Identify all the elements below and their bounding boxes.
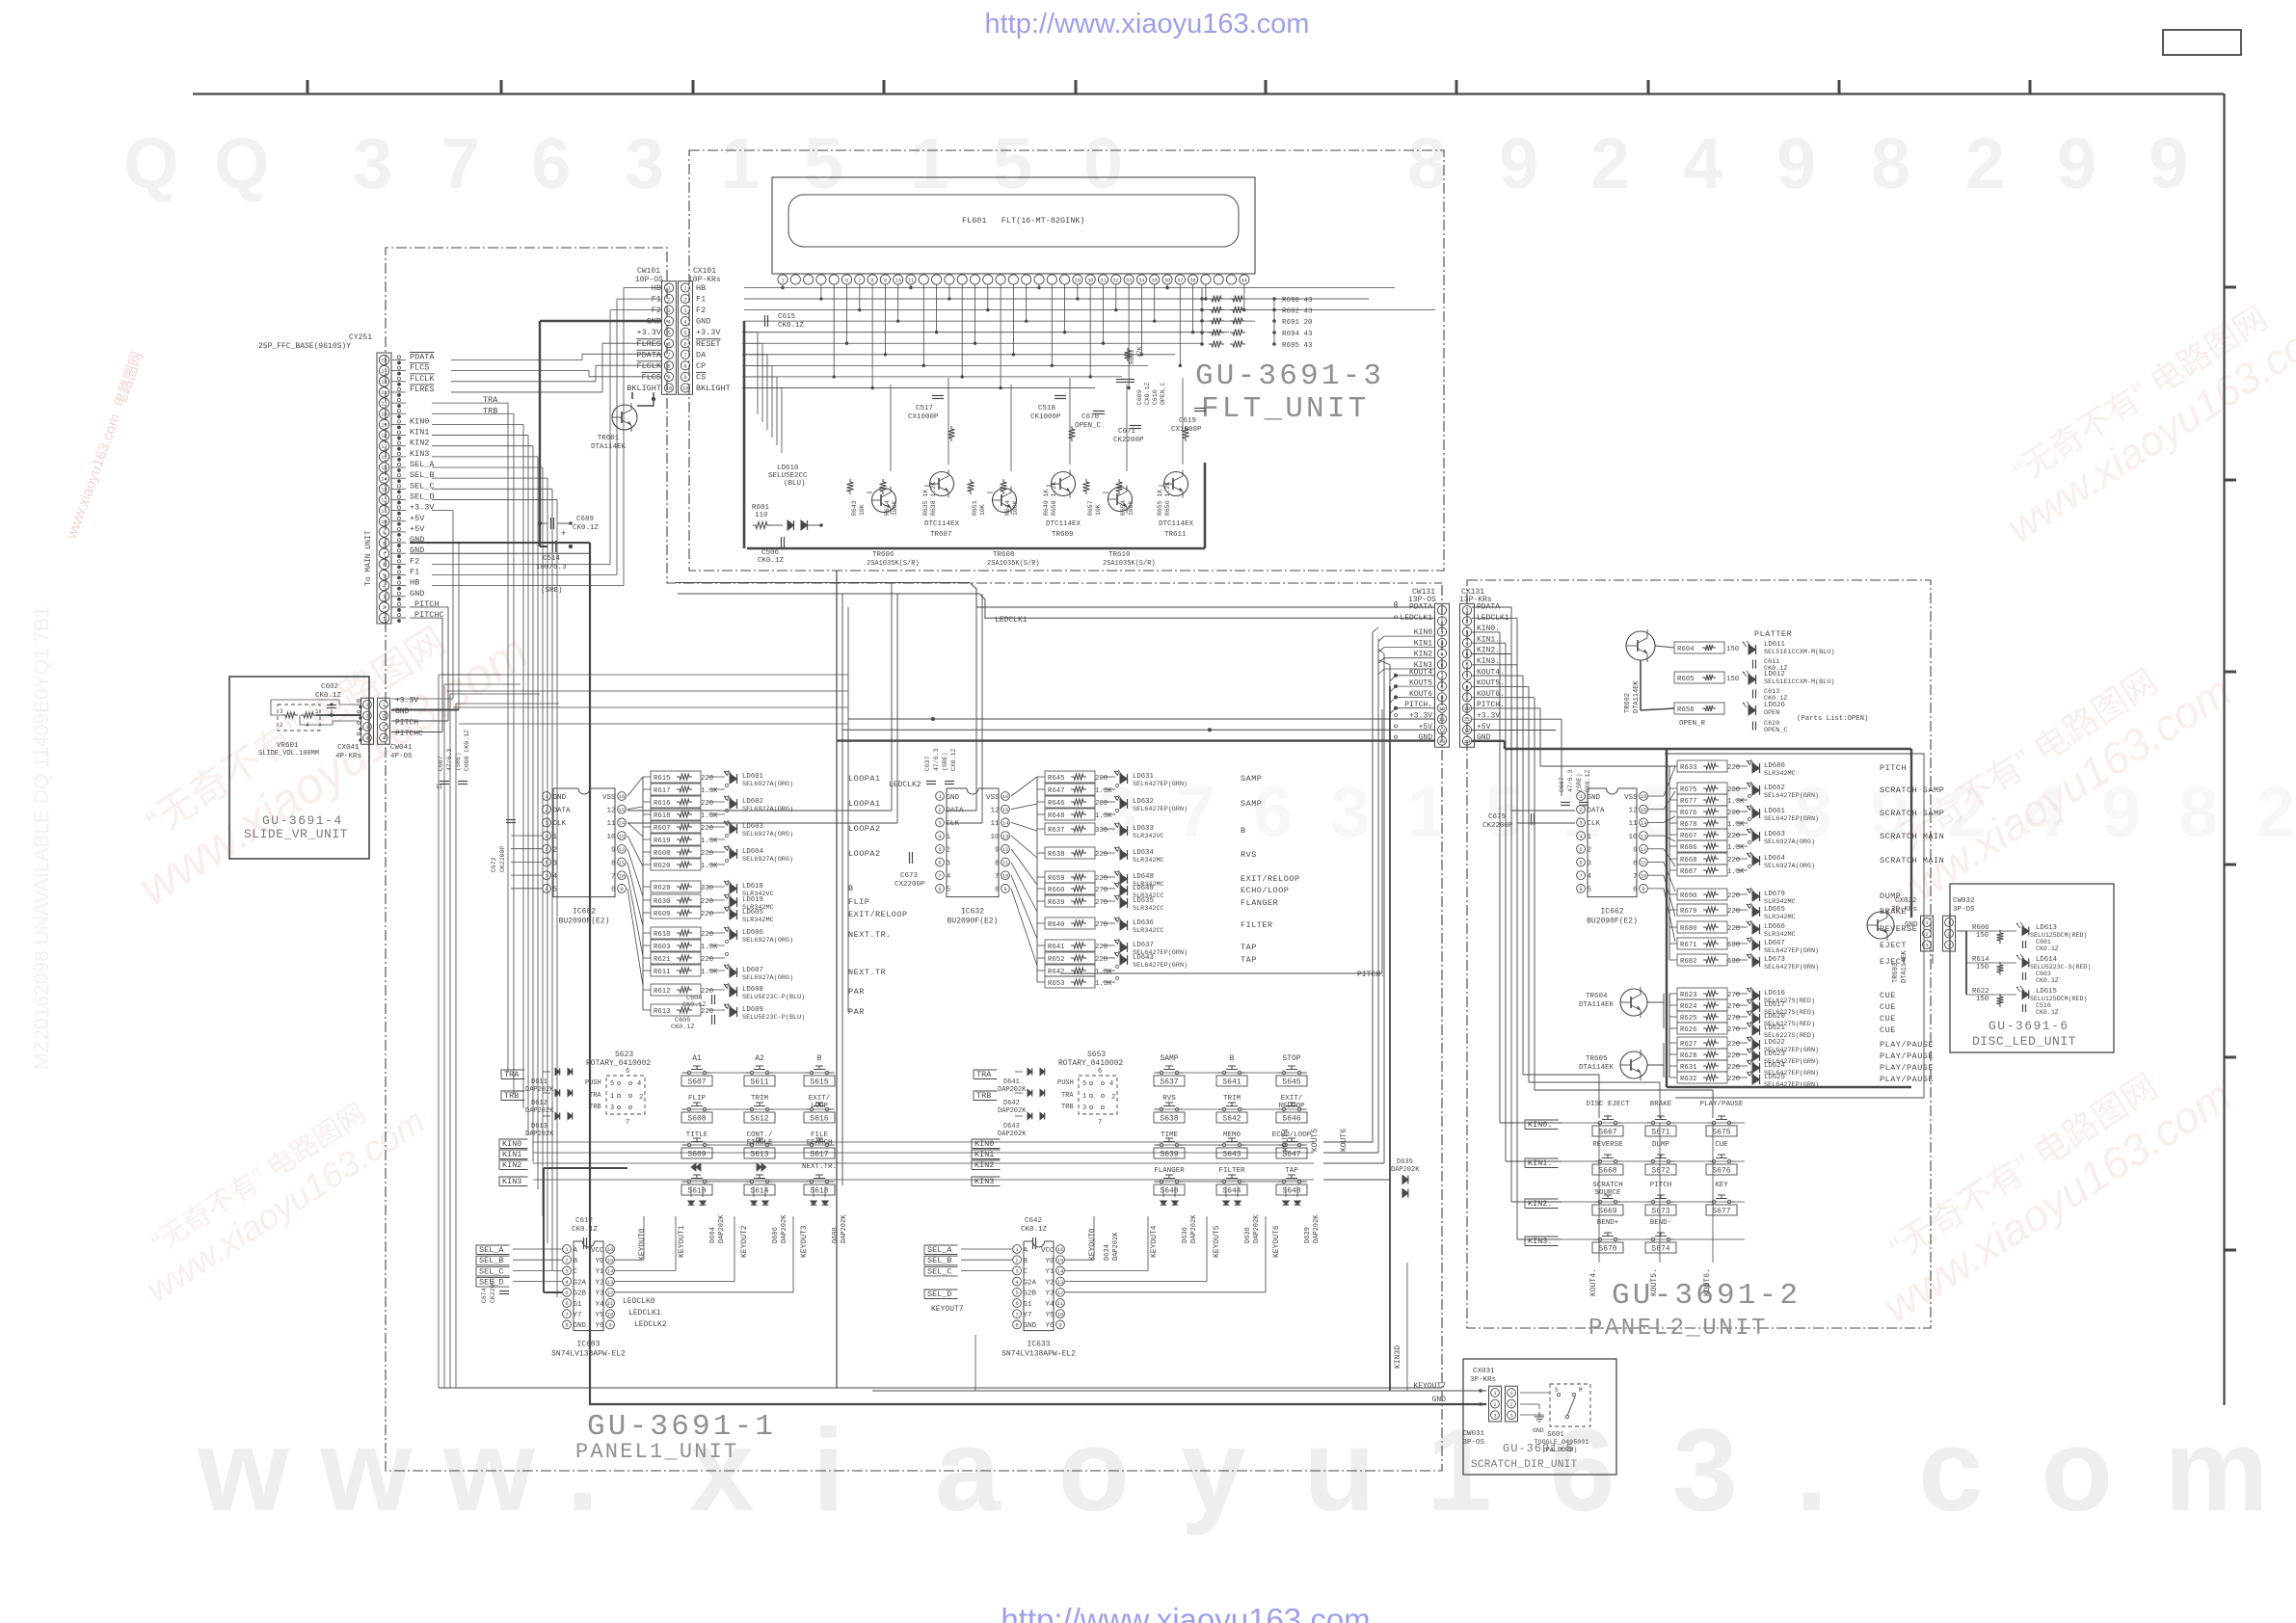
wire bus CY251 F2 F1 HB GND to CW101 pins bbox=[432, 563, 610, 565]
svg-text:TR610: TR610 bbox=[1108, 551, 1131, 559]
small circles at CX041 pins bbox=[358, 700, 360, 703]
svg-text:SLIDE_VOL.100MM: SLIDE_VOL.100MM bbox=[258, 750, 319, 758]
LED LD605 SLR342MC bbox=[730, 910, 737, 919]
svg-text:2: 2 bbox=[280, 722, 283, 729]
svg-text:PLAY/PAUSE: PLAY/PAUSE bbox=[1880, 1040, 1934, 1050]
svg-text:SEL6927A(ORG): SEL6927A(ORG) bbox=[1764, 863, 1815, 870]
svg-text:10: 10 bbox=[1628, 834, 1638, 841]
connector CW101 pin strip bbox=[662, 281, 677, 395]
svg-text:S642: S642 bbox=[1222, 1115, 1241, 1124]
svg-text:TAP: TAP bbox=[1241, 955, 1257, 965]
svg-text:1.3K: 1.3K bbox=[701, 944, 718, 951]
svg-text:CS: CS bbox=[696, 372, 706, 382]
svg-text:LD636: LD636 bbox=[1133, 919, 1154, 927]
LED LD603 SEL6927A(ORG) bbox=[730, 824, 737, 834]
svg-text:EJECT: EJECT bbox=[1880, 941, 1907, 950]
svg-text:GU-3691-6: GU-3691-6 bbox=[1989, 1019, 2069, 1033]
svg-text:D634: D634 bbox=[1104, 1244, 1111, 1261]
svg-text:HB: HB bbox=[410, 578, 419, 588]
resistor R646 200 bbox=[1045, 796, 1095, 808]
svg-text:1.3K: 1.3K bbox=[1095, 812, 1112, 820]
svg-text:SLR342MC: SLR342MC bbox=[742, 917, 774, 924]
svg-text:S640: S640 bbox=[1160, 1187, 1178, 1196]
svg-text:220: 220 bbox=[1727, 764, 1740, 772]
resistor R633 220 bbox=[1677, 760, 1727, 772]
svg-text:EXIT/: EXIT/ bbox=[809, 1095, 831, 1103]
svg-text:LD666: LD666 bbox=[1764, 923, 1785, 931]
svg-text:OPEN_R: OPEN_R bbox=[1679, 720, 1706, 728]
svg-text:KIN3D: KIN3D bbox=[1394, 1345, 1402, 1369]
svg-text:KIN3: KIN3 bbox=[974, 1177, 994, 1186]
switch S612 bbox=[750, 1107, 754, 1111]
svg-text:R610: R610 bbox=[654, 931, 671, 939]
svg-text:3: 3 bbox=[1509, 1412, 1512, 1419]
svg-text:G1: G1 bbox=[1024, 1301, 1033, 1309]
svg-text:1.3K: 1.3K bbox=[701, 787, 718, 795]
svg-text:S639: S639 bbox=[1160, 1151, 1178, 1159]
svg-text:TR609: TR609 bbox=[1052, 531, 1074, 539]
svg-text:2SA1035K(S/R): 2SA1035K(S/R) bbox=[987, 560, 1040, 568]
svg-text:LD624: LD624 bbox=[1764, 1062, 1786, 1070]
transistor TR603 DTA114EK rotated label bbox=[1867, 912, 1894, 939]
resistor R621 220 bbox=[651, 952, 701, 964]
ladder left feed bus bbox=[1669, 766, 1670, 960]
svg-text:CK2200P: CK2200P bbox=[499, 846, 506, 872]
svg-text:LD643: LD643 bbox=[1133, 954, 1154, 962]
svg-text:R621: R621 bbox=[654, 956, 671, 964]
svg-text:D641: D641 bbox=[1003, 1078, 1020, 1086]
svg-text:S653: S653 bbox=[1087, 1051, 1106, 1059]
svg-text:CK0.1Z: CK0.1Z bbox=[778, 322, 805, 330]
svg-text:12: 12 bbox=[1057, 1290, 1064, 1296]
frame right ticks bbox=[2224, 286, 2236, 289]
LED LD664 SEL6927A(ORG) bbox=[1752, 856, 1760, 865]
svg-text:R654: R654 bbox=[1120, 500, 1127, 516]
svg-text:D639: D639 bbox=[1304, 1227, 1312, 1243]
svg-text:1.3K: 1.3K bbox=[1727, 821, 1745, 829]
svg-text:R632: R632 bbox=[1680, 1076, 1697, 1083]
svg-text:PUSH: PUSH bbox=[585, 1079, 601, 1087]
svg-text:270: 270 bbox=[1727, 1003, 1740, 1011]
svg-text:DAP202K: DAP202K bbox=[998, 1107, 1027, 1115]
svg-text:5: 5 bbox=[993, 123, 1032, 203]
svg-text:LD648: LD648 bbox=[1133, 873, 1154, 881]
svg-text:G2B: G2B bbox=[574, 1290, 587, 1298]
PANEL2 LED ladder return bus outline bbox=[1665, 754, 1924, 1098]
svg-text:16: 16 bbox=[607, 1246, 614, 1253]
svg-text:SLR342MC: SLR342MC bbox=[1764, 931, 1796, 939]
LED LD679 SLR342MC bbox=[1752, 891, 1760, 901]
svg-text:TRB: TRB bbox=[589, 1104, 601, 1111]
wire KOUT thick vertical to panel1 bottom bbox=[1389, 686, 1391, 1391]
svg-text:Q: Q bbox=[123, 123, 179, 203]
capacitor C613 CK0.1Z bbox=[1752, 690, 1754, 699]
svg-text:220: 220 bbox=[701, 911, 713, 918]
svg-text:SEL6427EP(GRN): SEL6427EP(GRN) bbox=[1133, 962, 1188, 970]
svg-text:S: S bbox=[1555, 1387, 1559, 1394]
resistor R641 220 bbox=[1045, 940, 1095, 951]
svg-text:R677: R677 bbox=[1680, 798, 1697, 806]
resistor R623 270 bbox=[1677, 988, 1727, 999]
svg-text:SELU5E23C-P(BLU): SELU5E23C-P(BLU) bbox=[742, 1014, 805, 1022]
switch S610 bbox=[687, 1180, 691, 1184]
svg-text:15: 15 bbox=[619, 807, 626, 813]
svg-text:6: 6 bbox=[938, 860, 941, 866]
svg-text:47K: 47K bbox=[1136, 346, 1143, 358]
svg-text:11: 11 bbox=[607, 1300, 614, 1307]
svg-text:12: 12 bbox=[1628, 808, 1637, 815]
svg-text:DAP202K: DAP202K bbox=[1391, 1166, 1420, 1174]
svg-text:Y4: Y4 bbox=[1045, 1301, 1055, 1309]
svg-text:ROTARY_0410002: ROTARY_0410002 bbox=[586, 1059, 651, 1068]
wire +3.3V GND to slide VR connector bbox=[432, 510, 453, 512]
svg-text:S623: S623 bbox=[615, 1051, 633, 1059]
svg-text:9: 9 bbox=[1440, 695, 1443, 702]
svg-text:14: 14 bbox=[619, 820, 626, 827]
svg-text:DTC114EX: DTC114EX bbox=[1159, 520, 1194, 528]
wire PITCH PITCHC to slide VR connector bbox=[410, 606, 448, 608]
svg-text:SEL6927A(ORG): SEL6927A(ORG) bbox=[742, 806, 793, 813]
svg-text:R631: R631 bbox=[1680, 1064, 1697, 1072]
svg-text:Y2: Y2 bbox=[1045, 1279, 1054, 1287]
svg-text:LD634: LD634 bbox=[1133, 849, 1155, 857]
transistor TR605 DTA114EK bbox=[1620, 1051, 1647, 1078]
PANEL2 switch matrix wires bbox=[1581, 1122, 1745, 1124]
svg-text:o: o bbox=[2042, 1404, 2114, 1535]
svg-text:LD620: LD620 bbox=[1764, 1013, 1785, 1021]
svg-text:TRA: TRA bbox=[976, 1070, 992, 1079]
svg-text:4: 4 bbox=[1588, 873, 1592, 881]
svg-text:8: 8 bbox=[1015, 1322, 1018, 1329]
svg-text:D612: D612 bbox=[531, 1100, 547, 1107]
svg-text:11: 11 bbox=[381, 509, 387, 515]
svg-text:13: 13 bbox=[1057, 1279, 1064, 1286]
svg-text:10K: 10K bbox=[979, 504, 986, 516]
svg-text:Y5: Y5 bbox=[595, 1312, 604, 1319]
resistor R615 220 bbox=[651, 771, 701, 783]
svg-text:1.3K: 1.3K bbox=[1095, 969, 1112, 976]
svg-text:TR603: TR603 bbox=[1892, 963, 1900, 983]
svg-text:100K: 100K bbox=[1128, 500, 1135, 516]
svg-text:R642: R642 bbox=[1048, 969, 1065, 976]
svg-text:Q: Q bbox=[214, 123, 270, 203]
svg-text:FLCS: FLCS bbox=[642, 372, 661, 382]
IC IC603 SN74LV138APW-EL2 bbox=[574, 1240, 583, 1242]
svg-text:LD618: LD618 bbox=[742, 883, 763, 891]
SCRATCH_DIR_UNIT box GU-3691-5 bbox=[1463, 1359, 1616, 1475]
svg-text:R671: R671 bbox=[1680, 942, 1697, 949]
svg-text:R658: R658 bbox=[1677, 706, 1695, 714]
svg-text:14: 14 bbox=[1057, 1268, 1064, 1275]
svg-text:LD619: LD619 bbox=[742, 896, 763, 904]
svg-text:5: 5 bbox=[683, 330, 686, 336]
connector CX101 pin strip bbox=[679, 281, 693, 395]
svg-text:KIN1: KIN1 bbox=[974, 1150, 994, 1159]
svg-text:F1: F1 bbox=[696, 295, 706, 305]
svg-text:1.3K: 1.3K bbox=[701, 838, 718, 845]
resistor R679 220 bbox=[1677, 904, 1727, 916]
svg-text:2: 2 bbox=[565, 1257, 568, 1264]
svg-text:SEL6427EP(GRN): SEL6427EP(GRN) bbox=[1764, 815, 1819, 823]
switch S644 bbox=[1222, 1180, 1226, 1184]
svg-text:KOUT6.: KOUT6. bbox=[1703, 1268, 1712, 1296]
svg-text:270: 270 bbox=[1095, 899, 1108, 907]
svg-text:PITCH: PITCH bbox=[1650, 1182, 1672, 1189]
svg-text:LEDCLK1: LEDCLK1 bbox=[995, 616, 1028, 625]
svg-text:47/6.3: 47/6.3 bbox=[446, 748, 453, 771]
svg-text:S669: S669 bbox=[1598, 1208, 1616, 1216]
svg-text:4: 4 bbox=[1109, 1080, 1113, 1088]
svg-text:GND: GND bbox=[410, 589, 424, 599]
svg-text:10: 10 bbox=[1002, 872, 1009, 879]
IC602 left side entry stubs bbox=[511, 835, 542, 837]
svg-text:10: 10 bbox=[619, 872, 626, 879]
resistor R624 270 bbox=[1677, 999, 1727, 1011]
svg-text:SLR342MC: SLR342MC bbox=[1764, 914, 1796, 921]
svg-text:R649 1K: R649 1K bbox=[1043, 490, 1050, 516]
svg-text:SEL6427EP(GRN): SEL6427EP(GRN) bbox=[1133, 806, 1188, 813]
svg-text:C518: C518 bbox=[1038, 405, 1055, 412]
svg-text:3: 3 bbox=[1330, 772, 1370, 852]
svg-text:S671: S671 bbox=[1651, 1129, 1669, 1137]
svg-text:D606: D606 bbox=[772, 1227, 780, 1243]
svg-text:PITCHC: PITCHC bbox=[395, 730, 423, 738]
svg-text:C603: C603 bbox=[2036, 971, 2051, 977]
svg-text:220: 220 bbox=[701, 775, 713, 783]
svg-text:LD667: LD667 bbox=[1764, 940, 1785, 947]
svg-text:+5V: +5V bbox=[410, 524, 425, 534]
capacitor C517 CX1000P bbox=[932, 395, 944, 397]
rewind icon bbox=[691, 1163, 696, 1171]
switch S667 bbox=[1598, 1121, 1602, 1125]
svg-text:38: 38 bbox=[1189, 279, 1195, 284]
LED LD643 SEL6427EP(GRN) bbox=[1120, 955, 1128, 965]
svg-text:7: 7 bbox=[1579, 872, 1582, 879]
svg-text:11: 11 bbox=[619, 860, 626, 866]
svg-text:KIN0.: KIN0. bbox=[1528, 1120, 1553, 1130]
svg-text:1.3K: 1.3K bbox=[1727, 868, 1745, 876]
wire GND bus to CW131 thick bbox=[837, 739, 1435, 741]
svg-text:6: 6 bbox=[1579, 860, 1582, 866]
svg-text:TR602: TR602 bbox=[1624, 693, 1632, 713]
svg-text:GU-3691-1: GU-3691-1 bbox=[587, 1410, 776, 1444]
svg-text:SAMP: SAMP bbox=[1241, 774, 1262, 784]
svg-text:270: 270 bbox=[1727, 1026, 1740, 1034]
resistor R645 200 bbox=[1045, 771, 1095, 783]
svg-text:CP: CP bbox=[696, 361, 706, 371]
svg-text:F2: F2 bbox=[652, 306, 661, 315]
svg-text:Y7: Y7 bbox=[574, 1312, 582, 1319]
svg-text:w: w bbox=[320, 1404, 414, 1535]
svg-text:47/6.3: 47/6.3 bbox=[933, 748, 940, 771]
svg-text:9: 9 bbox=[884, 279, 887, 284]
svg-text:LD631: LD631 bbox=[1133, 773, 1155, 781]
svg-text:C602: C602 bbox=[321, 683, 338, 691]
svg-text:ECHO/LOOP: ECHO/LOOP bbox=[1241, 886, 1289, 895]
svg-text:CK2200P: CK2200P bbox=[490, 1277, 496, 1303]
svg-text:CLK: CLK bbox=[553, 820, 567, 828]
svg-text:KEYOUT2: KEYOUT2 bbox=[740, 1225, 749, 1258]
switch S647 bbox=[1282, 1143, 1286, 1147]
svg-text:3P-OS: 3P-OS bbox=[1462, 1439, 1484, 1447]
svg-text:R623: R623 bbox=[1680, 992, 1697, 999]
svg-text:4: 4 bbox=[947, 873, 951, 881]
svg-text:R660: R660 bbox=[1048, 887, 1065, 894]
svg-text:9: 9 bbox=[1633, 847, 1638, 855]
svg-text:S608: S608 bbox=[687, 1115, 706, 1124]
svg-text:6: 6 bbox=[683, 340, 686, 347]
svg-text:TR601: TR601 bbox=[598, 435, 620, 442]
svg-text:2: 2 bbox=[1579, 807, 1582, 813]
svg-text:PLAY/PAUSE: PLAY/PAUSE bbox=[1699, 1101, 1744, 1108]
svg-text:1: 1 bbox=[938, 793, 942, 800]
svg-text:A: A bbox=[1024, 1247, 1028, 1255]
svg-text:SEL6927A(ORG): SEL6927A(ORG) bbox=[742, 856, 793, 864]
svg-text:FLANGER: FLANGER bbox=[1241, 898, 1278, 908]
svg-text:SLR342CC: SLR342CC bbox=[1133, 905, 1164, 913]
svg-text:1: 1 bbox=[1588, 834, 1592, 841]
svg-text:i: i bbox=[813, 1404, 845, 1535]
svg-text:12: 12 bbox=[619, 846, 626, 853]
svg-text:EXIT/RELOOP: EXIT/RELOOP bbox=[848, 910, 908, 919]
switch S613 bbox=[750, 1143, 754, 1147]
IC IC632 BU2090F(E2) bbox=[947, 787, 967, 789]
svg-text:3: 3 bbox=[683, 307, 686, 314]
svg-text:KIN2: KIN2 bbox=[410, 439, 429, 448]
svg-text:1: 1 bbox=[667, 285, 671, 292]
svg-text:BU2090F(E2): BU2090F(E2) bbox=[1587, 918, 1638, 926]
svg-text:LD621: LD621 bbox=[1764, 1024, 1786, 1032]
svg-text:6: 6 bbox=[845, 279, 848, 284]
resistor R677 1.3K bbox=[1677, 794, 1727, 806]
svg-text:32: 32 bbox=[1113, 279, 1119, 284]
svg-text:KIN3: KIN3 bbox=[502, 1177, 521, 1186]
svg-text:S612: S612 bbox=[750, 1115, 768, 1124]
switch S607 bbox=[687, 1071, 691, 1075]
svg-text:S670: S670 bbox=[1598, 1245, 1616, 1254]
svg-text:14: 14 bbox=[381, 476, 387, 482]
svg-text:220: 220 bbox=[701, 988, 713, 996]
transistor TR610 bbox=[1108, 488, 1133, 512]
svg-text:S607: S607 bbox=[687, 1078, 706, 1087]
svg-text:D635: D635 bbox=[1397, 1158, 1413, 1166]
transistor TR609 bbox=[1052, 472, 1076, 496]
svg-text:SEL6927A(ORG): SEL6927A(ORG) bbox=[1764, 838, 1815, 846]
svg-text:S609: S609 bbox=[687, 1151, 706, 1159]
svg-text:EXIT/: EXIT/ bbox=[1281, 1095, 1303, 1103]
svg-text:3: 3 bbox=[553, 860, 558, 867]
svg-text:S645: S645 bbox=[1282, 1078, 1300, 1087]
svg-text:M: M bbox=[1579, 1387, 1583, 1394]
svg-text:1: 1 bbox=[947, 834, 951, 841]
svg-text:47/6.3: 47/6.3 bbox=[1567, 769, 1574, 792]
svg-text:CUE: CUE bbox=[1880, 1014, 1896, 1024]
diode pair D639 DAP202K bbox=[1283, 1201, 1289, 1205]
svg-text:9: 9 bbox=[608, 1322, 611, 1329]
svg-text:Y0: Y0 bbox=[595, 1258, 604, 1265]
svg-text:TR607: TR607 bbox=[930, 531, 952, 539]
svg-text:4: 4 bbox=[683, 318, 687, 325]
svg-text:VCC: VCC bbox=[1041, 1247, 1055, 1255]
svg-text:VSS: VSS bbox=[986, 794, 1000, 802]
svg-text:CK0.1Z: CK0.1Z bbox=[573, 524, 600, 532]
svg-text:SEL_A: SEL_A bbox=[479, 1245, 504, 1255]
svg-text:KEYOUT7: KEYOUT7 bbox=[1413, 1382, 1446, 1391]
svg-text:PAR: PAR bbox=[848, 987, 865, 997]
svg-text:8: 8 bbox=[938, 886, 941, 892]
wires inside slide VR unit bbox=[338, 700, 340, 705]
svg-text:CK0.1Z: CK0.1Z bbox=[1021, 1226, 1048, 1234]
svg-text:DTA114EK: DTA114EK bbox=[1579, 1064, 1615, 1072]
svg-text:TRB: TRB bbox=[976, 1091, 991, 1101]
svg-text:KIN2: KIN2 bbox=[502, 1160, 521, 1170]
svg-text:10: 10 bbox=[990, 834, 1000, 841]
svg-text:10: 10 bbox=[1641, 872, 1647, 879]
svg-text:PDATA: PDATA bbox=[410, 353, 435, 362]
svg-text:1: 1 bbox=[1925, 919, 1929, 926]
svg-text:R668: R668 bbox=[1680, 857, 1697, 865]
svg-text:10: 10 bbox=[666, 386, 673, 392]
svg-text:12: 12 bbox=[1641, 846, 1647, 853]
diode pair D636 DAP202K bbox=[1161, 1201, 1166, 1205]
svg-text:LEDCLK2: LEDCLK2 bbox=[889, 781, 921, 789]
svg-text:KEYOUT4: KEYOUT4 bbox=[1150, 1225, 1159, 1258]
svg-text:G2A: G2A bbox=[1024, 1279, 1037, 1287]
svg-text:CUE: CUE bbox=[1880, 1025, 1896, 1035]
switch S645 bbox=[1282, 1071, 1286, 1075]
switch S648 bbox=[1282, 1180, 1286, 1184]
svg-text:200: 200 bbox=[1095, 800, 1108, 808]
frame top ticks bbox=[307, 80, 309, 93]
capacitor C506 CK0.1Z bbox=[781, 537, 783, 548]
svg-text:2SA1035K(S/R): 2SA1035K(S/R) bbox=[867, 560, 920, 568]
watermark pink right top partial bbox=[1977, 271, 2296, 552]
svg-text:10K: 10K bbox=[859, 504, 866, 516]
svg-text:BRAKE: BRAKE bbox=[1650, 1101, 1672, 1108]
svg-text:SEL_A: SEL_A bbox=[927, 1245, 952, 1255]
svg-text:8: 8 bbox=[1871, 123, 1910, 203]
svg-text:SEL_A: SEL_A bbox=[410, 460, 435, 469]
svg-text:PITCHC: PITCHC bbox=[414, 610, 444, 620]
IC633 output wires to keyout columns bbox=[1065, 1259, 1094, 1261]
svg-text:CUE: CUE bbox=[1715, 1141, 1728, 1149]
LED LD636 SLR342CC bbox=[1120, 920, 1128, 930]
capacitor C620 OPEN_C bbox=[1752, 722, 1754, 731]
svg-text:220: 220 bbox=[1727, 1064, 1740, 1072]
svg-text:220: 220 bbox=[701, 1008, 713, 1016]
svg-text:R641: R641 bbox=[1048, 944, 1065, 951]
outer wire loop around VR601 bbox=[271, 700, 339, 715]
svg-text:R607: R607 bbox=[654, 825, 671, 833]
svg-text:GND: GND bbox=[1024, 1322, 1037, 1330]
svg-text:2: 2 bbox=[545, 807, 547, 813]
wire KIN bundle vertical right of panel1 bbox=[1372, 632, 1374, 1142]
svg-text:1.3K: 1.3K bbox=[701, 812, 718, 820]
svg-text:S646: S646 bbox=[1282, 1115, 1300, 1124]
svg-text:KIN2: KIN2 bbox=[974, 1160, 994, 1170]
panel1 bottom bus bbox=[439, 1387, 1442, 1389]
svg-text:3P-OS: 3P-OS bbox=[1953, 906, 1975, 914]
svg-text:1: 1 bbox=[1082, 1093, 1086, 1101]
capacitor C516 CK0.1Z bbox=[2022, 1004, 2024, 1012]
svg-text:14: 14 bbox=[1002, 820, 1009, 827]
svg-text:GND: GND bbox=[947, 794, 960, 802]
resistor R686 1.3K bbox=[1677, 840, 1727, 852]
resistor R632 220 bbox=[1677, 1072, 1727, 1083]
resistor R659 220 bbox=[1045, 871, 1095, 883]
svg-text:PDATA: PDATA bbox=[636, 350, 661, 359]
svg-text:KOUT5: KOUT5 bbox=[1311, 1129, 1320, 1152]
